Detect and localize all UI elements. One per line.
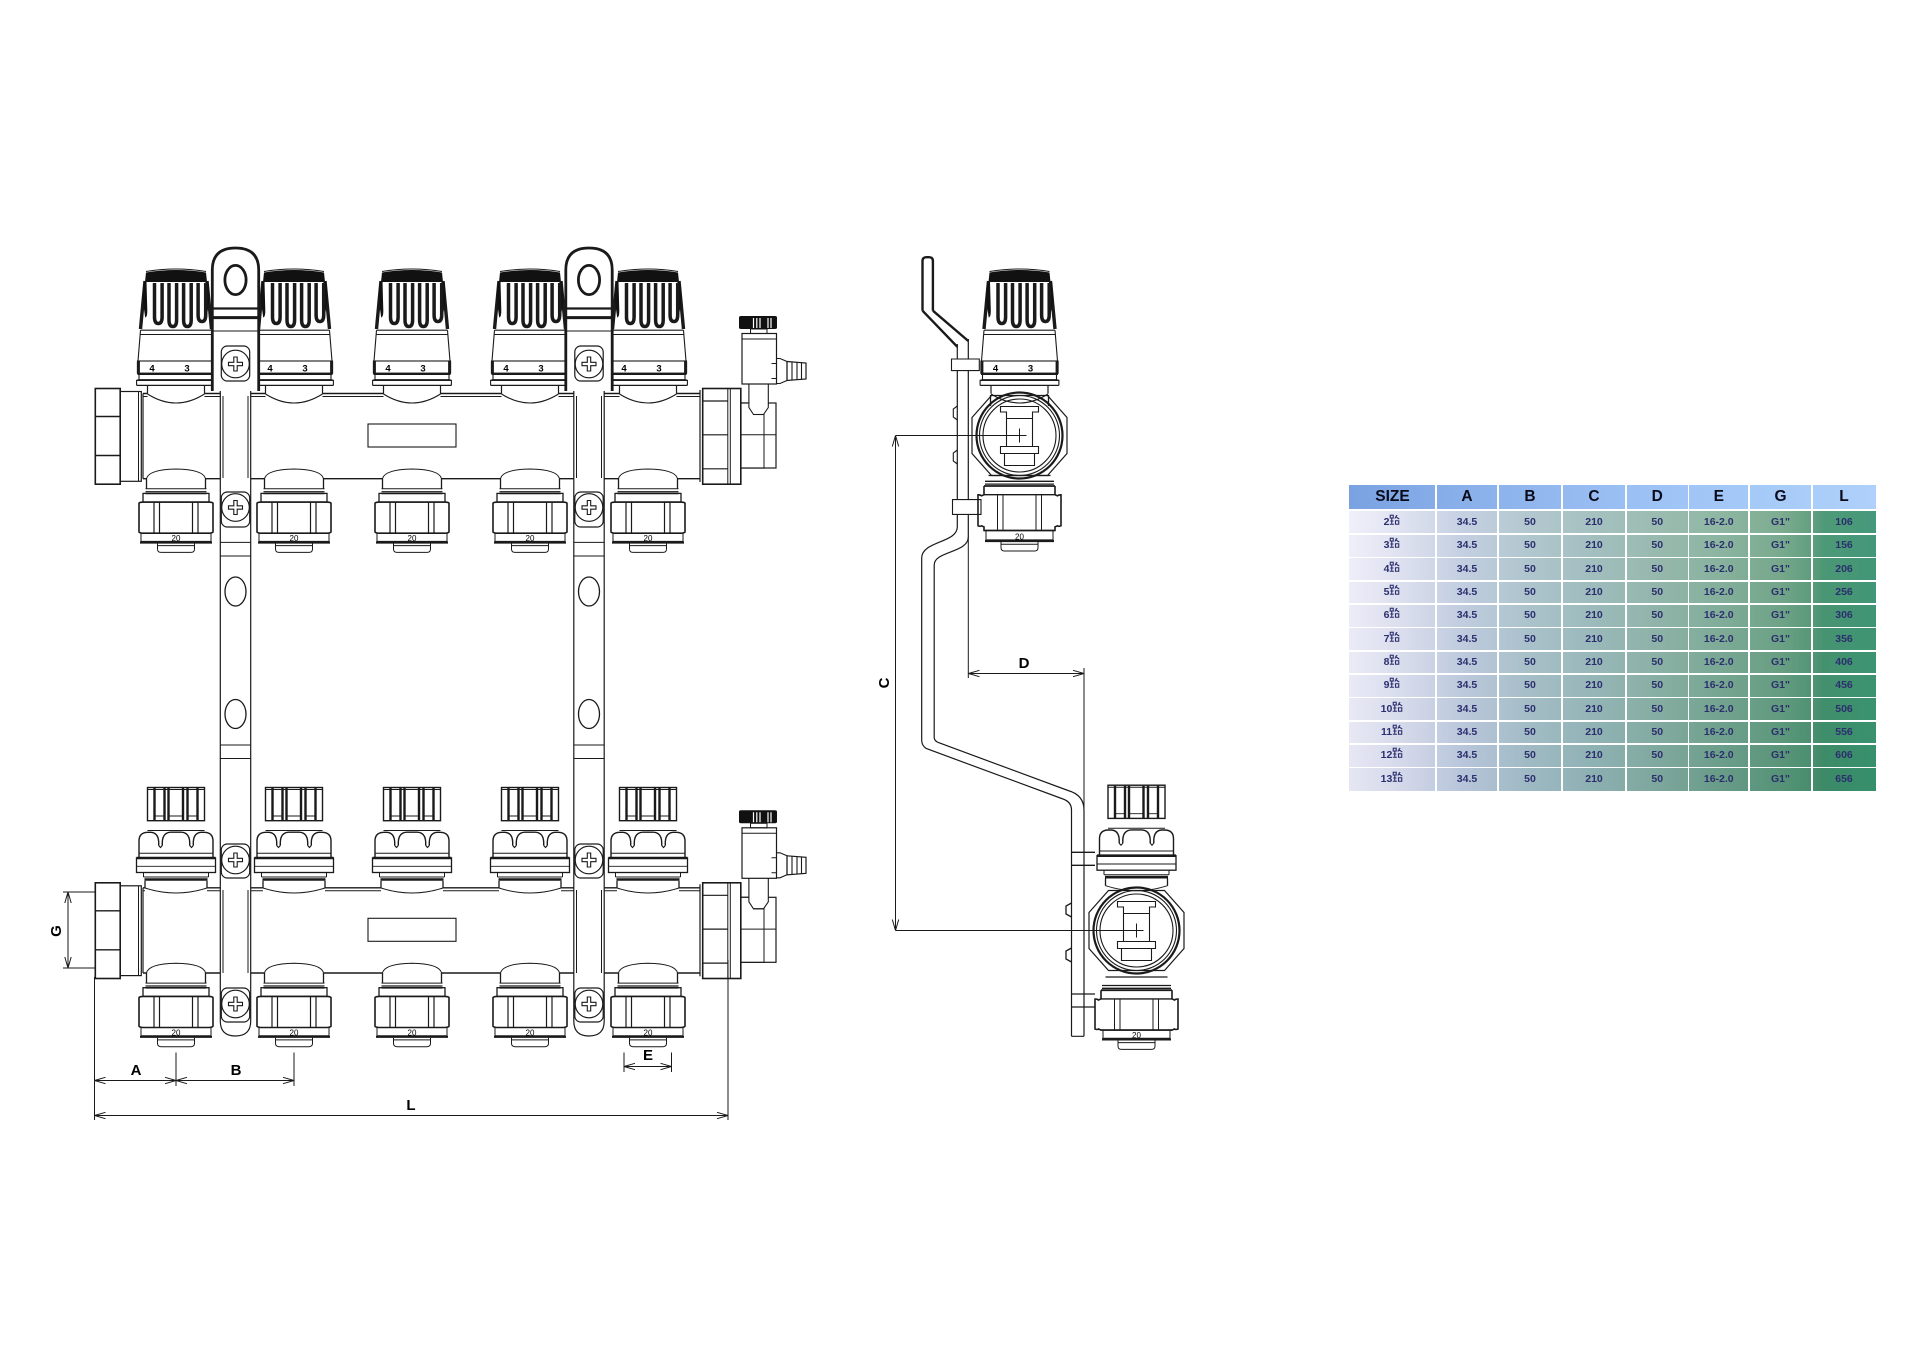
svg-text:20: 20	[1132, 1031, 1141, 1040]
svg-text:B: B	[231, 1062, 242, 1079]
svg-text:C: C	[876, 677, 893, 688]
svg-text:G: G	[48, 925, 65, 937]
svg-text:E: E	[643, 1047, 653, 1064]
svg-text:L: L	[406, 1097, 415, 1114]
svg-text:A: A	[131, 1062, 142, 1079]
svg-text:D: D	[1019, 655, 1030, 672]
svg-text:20: 20	[1015, 533, 1024, 542]
